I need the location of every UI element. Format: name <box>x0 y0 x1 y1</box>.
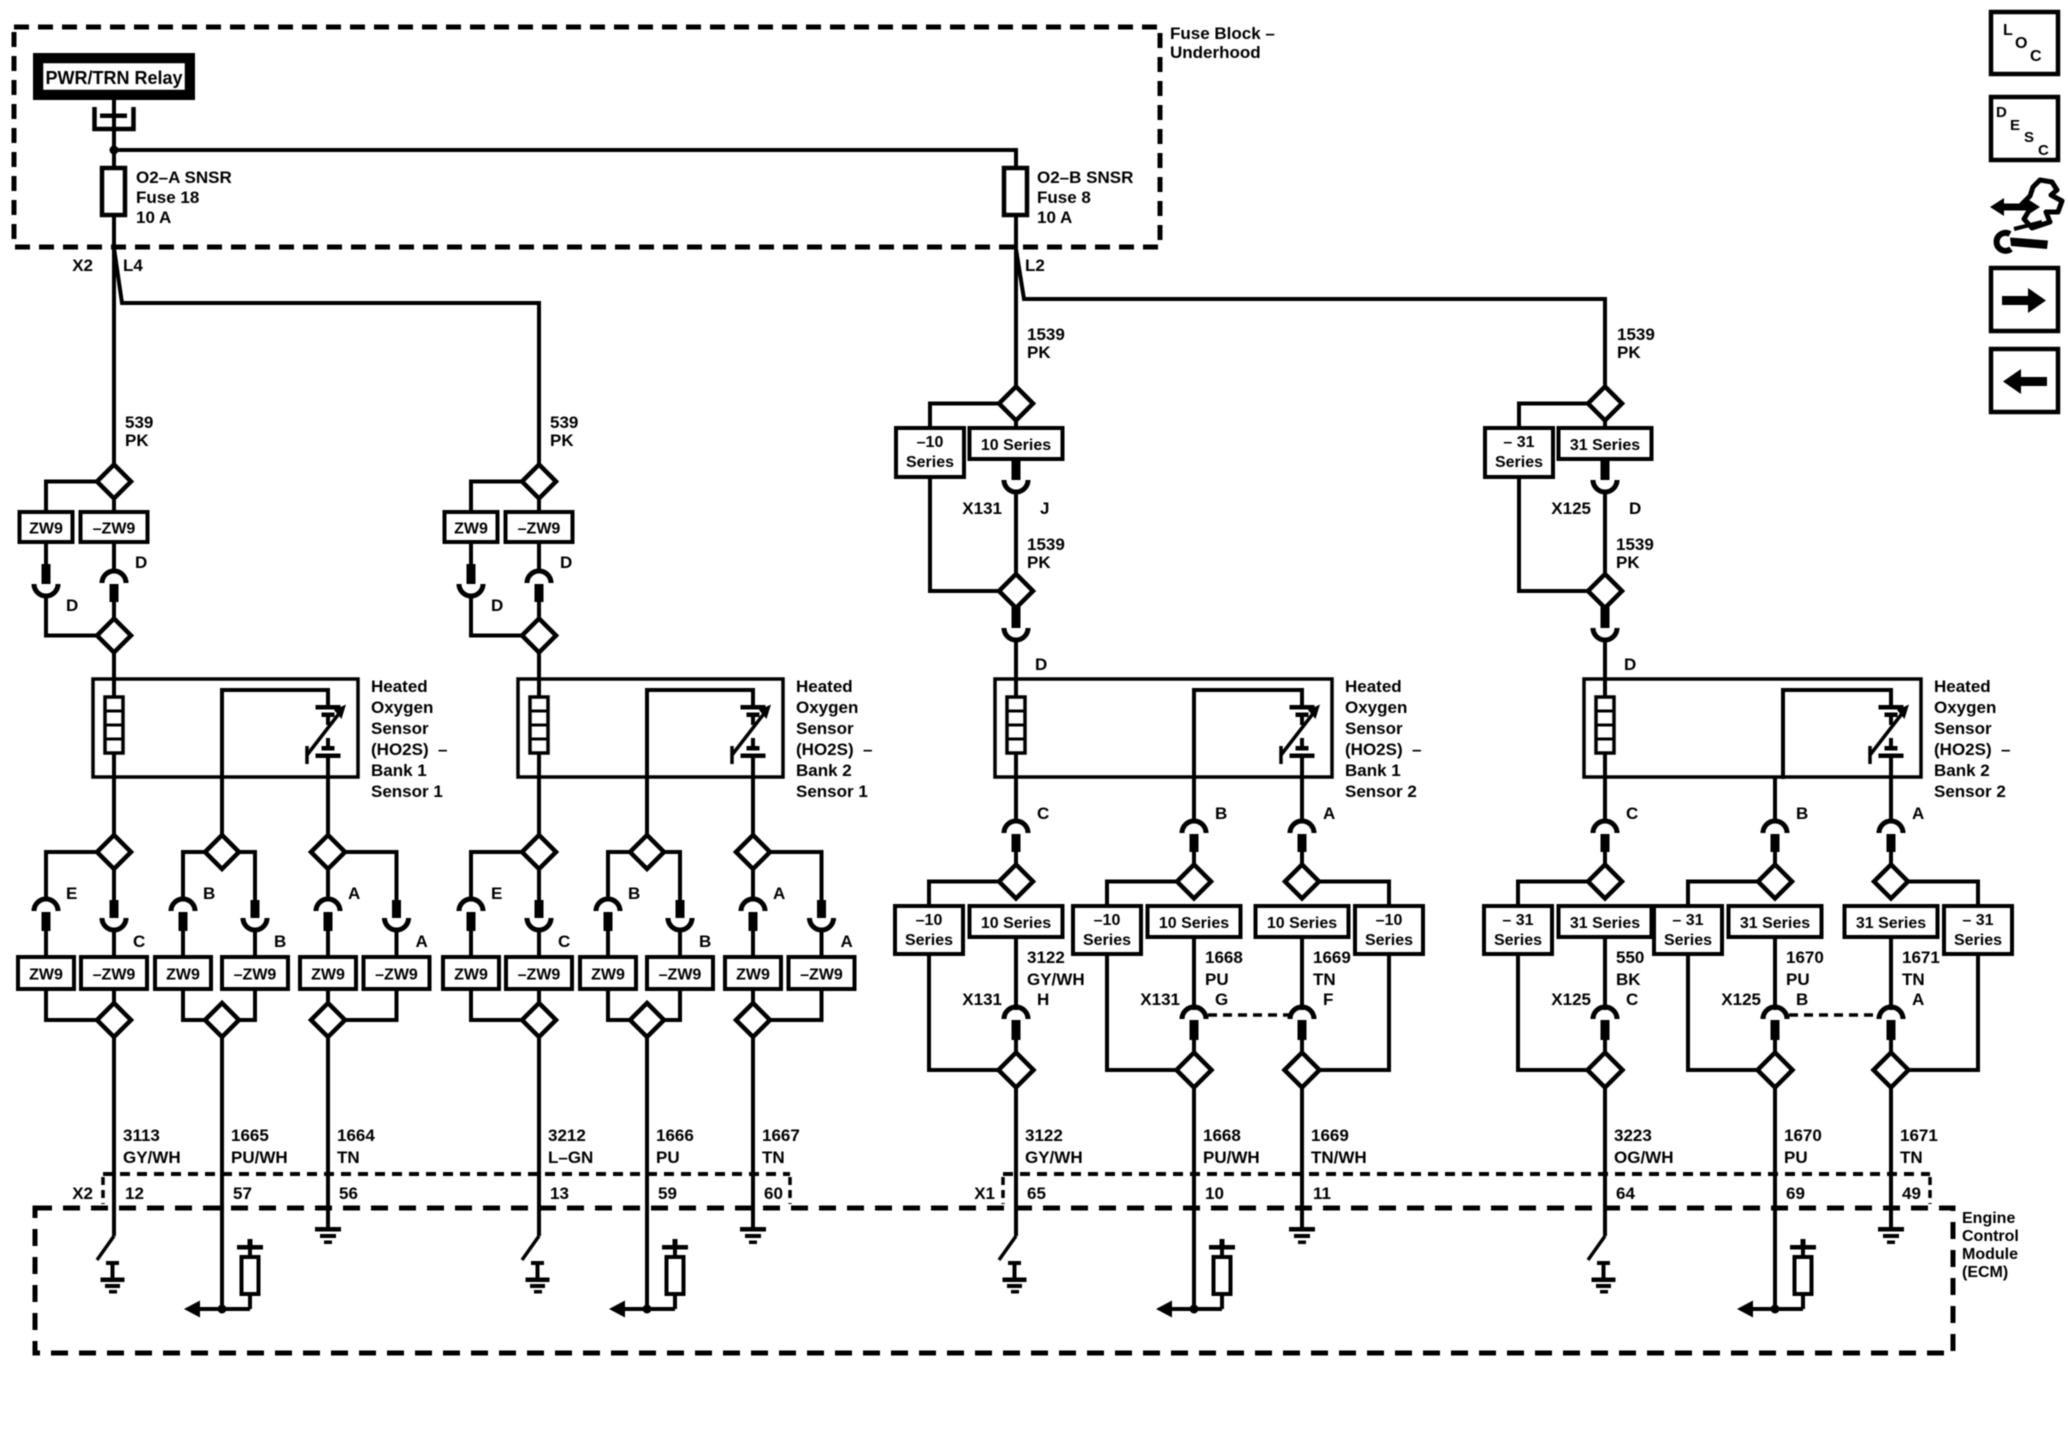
svg-text:D: D <box>491 596 503 615</box>
signal diverge diamond A B2S1c <box>736 777 770 869</box>
svg-text:10 Series: 10 Series <box>1267 915 1337 932</box>
svg-text:(ECM): (ECM) <box>1962 1264 2008 1281</box>
series merge diamond B1S2b <box>1177 1053 1212 1088</box>
svg-text:Heated: Heated <box>371 677 428 696</box>
ECM signal arrow pin69 <box>1737 1301 1803 1318</box>
wire to -ZW9 box B1S1 <box>112 929 116 958</box>
svg-text:Bank 1: Bank 1 <box>1345 761 1401 780</box>
svg-text:PU: PU <box>656 1148 680 1167</box>
svg-text:ZW9: ZW9 <box>454 521 488 538</box>
wire below series box B1S2c <box>1300 937 1304 1010</box>
ZW9 option box low B2S1c <box>725 957 781 989</box>
inline connector pin right B1S1 <box>110 900 119 918</box>
svg-text:ZW9: ZW9 <box>454 967 488 984</box>
engine control module dashed box <box>35 1208 1953 1353</box>
svg-text:Sensor 2: Sensor 2 <box>1934 782 2006 801</box>
branch wire right B1S1 <box>112 868 116 902</box>
connector pin X131 B1S2 <box>1012 459 1021 480</box>
signal merge diamond B1S1b <box>205 1003 239 1037</box>
label X2 at fuse block exit <box>72 256 93 275</box>
wire label 3122 GY/WH <box>1025 1126 1083 1167</box>
pin 10 <box>1205 1184 1224 1203</box>
label X125 top B2S2 <box>1551 499 1591 518</box>
ZW9 option box low B2S1b <box>580 957 636 989</box>
wire right to merge B1S1 <box>112 600 116 620</box>
sensor variable arrow B1S1 <box>307 705 346 765</box>
svg-text:PK: PK <box>550 431 574 450</box>
svg-text:B: B <box>1215 804 1227 823</box>
connector pin D B2S2 <box>1601 607 1610 628</box>
stub to series box B1S2 <box>1014 419 1018 429</box>
stub to series box B2S2 <box>1603 419 1607 429</box>
svg-text:69: 69 <box>1786 1184 1805 1203</box>
svg-text:X125: X125 <box>1551 499 1591 518</box>
svg-text:OG/WH: OG/WH <box>1614 1148 1674 1167</box>
wire to -ZW9 box B2S1b <box>678 929 682 958</box>
10 Series option box low B1S2c <box>1256 906 1349 937</box>
svg-text:L4: L4 <box>123 256 143 275</box>
wire label 1539 PK col4 <box>1617 325 1655 362</box>
pin 11 <box>1313 1184 1331 1203</box>
inline connector socket C B1S1 <box>102 918 145 951</box>
wire fuse18 down <box>112 215 116 248</box>
svg-text:X2: X2 <box>72 1184 93 1203</box>
svg-text:Sensor 2: Sensor 2 <box>1345 782 1417 801</box>
-ZW9 option box low B2S1c <box>789 957 855 989</box>
sensor element cell B2S2 <box>1879 705 1904 779</box>
pin 57 <box>233 1184 252 1203</box>
svg-text:TN/WH: TN/WH <box>1311 1148 1367 1167</box>
svg-text:10 Series: 10 Series <box>981 437 1051 454</box>
svg-text:–ZW9: –ZW9 <box>234 967 277 984</box>
svg-text:B: B <box>699 932 711 951</box>
ECM sense wire pin10 <box>1192 1208 1196 1309</box>
inline connector pin left B2S1 <box>467 564 476 584</box>
ECM pull-up resistor pin57 <box>237 1239 263 1309</box>
ECM label <box>1962 1210 2019 1281</box>
pin 60 <box>764 1184 783 1203</box>
svg-text:– 31: – 31 <box>1672 912 1703 929</box>
ECM driver switch pin12 <box>97 1208 114 1260</box>
wire to diverge B2S2b <box>1773 850 1777 865</box>
connector pin C B2S2 <box>1601 834 1610 852</box>
connector pin low B1S2b <box>1190 1020 1199 1040</box>
fuse block - underhood dashed enclosure <box>14 27 1160 247</box>
signal merge diamond B1S1 <box>97 1003 131 1037</box>
pin 64 <box>1616 1184 1635 1203</box>
wire label 539 PK col1 <box>125 413 153 450</box>
svg-text:O: O <box>2015 35 2027 52</box>
sensor cell internal wire B2S1 <box>647 690 753 779</box>
svg-text:31 Series: 31 Series <box>1570 437 1640 454</box>
wire to -ZW9 box B1S1b <box>253 929 257 958</box>
svg-text:ZW9: ZW9 <box>736 967 770 984</box>
svg-text:A: A <box>1323 804 1335 823</box>
-31 Series option box low B2S2c <box>1944 906 2012 954</box>
ECM sense wire pin69 <box>1773 1208 1777 1309</box>
svg-text:1667: 1667 <box>762 1126 800 1145</box>
label terminal letter top B2S2 <box>1629 499 1641 518</box>
ECM pull-up resistor pin69 <box>1790 1239 1816 1309</box>
inline connector pin right B1S1c <box>392 900 401 918</box>
wire -ZW9 to merge B1S1c <box>345 989 397 1020</box>
ECM pull-up resistor pin10 <box>1209 1239 1235 1309</box>
svg-text:A: A <box>773 884 785 903</box>
connector pin D B1S2 <box>1012 607 1021 628</box>
signal merge diamond B2S1c <box>736 1003 770 1037</box>
sensor variable arrow B2S2 <box>1870 705 1909 765</box>
inline connector socket right D B2S1 <box>527 553 572 583</box>
svg-text:(HO2S) –: (HO2S) – <box>796 740 873 759</box>
svg-text:A: A <box>416 932 428 951</box>
inline connector pin left B1S1b <box>179 912 188 931</box>
svg-text:–10: –10 <box>917 434 944 451</box>
svg-text:E: E <box>491 884 502 903</box>
connector pin C B1S2 <box>1012 834 1021 852</box>
icon LOC box <box>1991 12 2058 74</box>
sensor output wire B2S2 <box>1603 777 1607 822</box>
ECM driver switch pin64 <box>1588 1208 1605 1260</box>
wire below -ZW9 B2S1 <box>537 542 541 572</box>
wire label 1670 PU <box>1784 1126 1822 1167</box>
feed merge diamond B1S2 <box>999 574 1033 608</box>
label L4 <box>123 256 143 275</box>
inline connector pin right B1S1 <box>110 584 119 602</box>
svg-text:Sensor: Sensor <box>1934 719 1992 738</box>
branch to -31 series B2S2 <box>1518 882 1588 907</box>
fuse 18 label <box>136 168 232 227</box>
branch wire right B1S1b <box>239 852 255 902</box>
wire to ZW9 box B2S1c <box>751 929 755 958</box>
sensor element cell B1S1 <box>316 705 341 779</box>
svg-text:Heated: Heated <box>1345 677 1402 696</box>
svg-text:X2: X2 <box>72 256 93 275</box>
ZW9 option box low B2S1 <box>443 957 499 989</box>
svg-text:11: 11 <box>1313 1184 1331 1203</box>
wire below series box B1S2b <box>1192 937 1196 1010</box>
svg-text:ZW9: ZW9 <box>29 967 63 984</box>
svg-text:F: F <box>1323 990 1333 1009</box>
svg-text:Series: Series <box>906 454 954 471</box>
wire to ECM pin B2S2 <box>1603 1088 1607 1211</box>
signal diverge diamond B B2S1b <box>630 777 664 869</box>
wire label 1671 TN <box>1900 1126 1938 1167</box>
svg-text:1666: 1666 <box>656 1126 694 1145</box>
-10 Series option box low B1S2 <box>895 906 963 954</box>
svg-text:X1: X1 <box>974 1184 995 1203</box>
-ZW9 option box low B2S1b <box>647 957 713 989</box>
fuse block label <box>1170 24 1275 62</box>
-ZW9 option box B1S1 <box>81 512 148 542</box>
svg-text:–ZW9: –ZW9 <box>518 521 561 538</box>
-ZW9 option box low B2S1 <box>506 957 572 989</box>
branch wire left B2S1 <box>471 852 522 901</box>
svg-text:– 31: – 31 <box>1502 912 1533 929</box>
wire to -ZW9 box B2S1c <box>820 929 824 958</box>
svg-text:10 A: 10 A <box>136 208 171 227</box>
svg-text:TN: TN <box>1313 970 1336 989</box>
10 Series option box low B1S2 <box>970 906 1063 937</box>
wire bus to O2-B fuse <box>114 150 1016 168</box>
twisted pair dashed link B-A <box>1789 1013 1878 1017</box>
wire to merge low B2S2c <box>1889 1040 1893 1053</box>
wire X125 to merge B2S2 <box>1603 491 1607 575</box>
inline connector socket A B1S1c <box>316 884 360 911</box>
svg-text:TN: TN <box>762 1148 785 1167</box>
svg-text:–ZW9: –ZW9 <box>518 967 561 984</box>
connector pin low B2S2c <box>1887 1020 1896 1040</box>
mid wire label B2S2b <box>1786 948 1824 989</box>
inline connector socket E B1S1 <box>34 884 77 911</box>
label terminal letter top B1S2 <box>1040 499 1049 518</box>
svg-text:TN: TN <box>337 1148 360 1167</box>
svg-text:Sensor 1: Sensor 1 <box>371 782 443 801</box>
ECM signal arrow pin10 <box>1156 1301 1222 1318</box>
31 Series option box B2S2 <box>1559 428 1652 459</box>
svg-text:65: 65 <box>1027 1184 1046 1203</box>
icon harness outline <box>2022 180 2062 228</box>
svg-text:E: E <box>66 884 77 903</box>
svg-text:GY/WH: GY/WH <box>1025 1148 1083 1167</box>
sensor label B2S1 <box>796 677 873 801</box>
svg-text:– 31: – 31 <box>1962 912 1993 929</box>
wire left to merge B2S1 <box>471 595 522 636</box>
wire below -ZW9 B1S1 <box>112 542 116 572</box>
series diverge diamond B2S2c <box>1874 865 1908 899</box>
wire label 1666 PU <box>656 1126 694 1167</box>
fuse 8 label <box>1037 168 1133 227</box>
sensor element cell B1S2 <box>1290 705 1315 779</box>
heater element B1S2 <box>1007 679 1025 779</box>
inline connector socket A B2S1c <box>810 918 853 951</box>
pin 69 <box>1786 1184 1805 1203</box>
-ZW9 option box low B1S1 <box>81 957 147 989</box>
sensor output wire B2S2b <box>1773 777 1777 822</box>
svg-text:Sensor 1: Sensor 1 <box>796 782 868 801</box>
svg-text:D: D <box>1996 104 2007 121</box>
branch to -31 series B2S2c <box>1908 882 1978 907</box>
svg-text:PK: PK <box>125 431 149 450</box>
-10 series return wire B1S2 <box>929 954 999 1070</box>
ZW9 option box B2S1 <box>445 512 498 542</box>
svg-text:10: 10 <box>1205 1184 1224 1203</box>
connector pin low B1S2 <box>1012 1020 1021 1040</box>
feed merge diamond B2S2 <box>1588 574 1622 608</box>
wire ZW9 to merge B2S1 <box>471 989 522 1020</box>
connector socket low B1S2b <box>1182 990 1228 1019</box>
wire left to merge B1S1 <box>46 595 97 636</box>
svg-text:ZW9: ZW9 <box>166 967 200 984</box>
svg-text:D: D <box>560 553 572 572</box>
inline connector socket A B2S1c <box>741 884 785 911</box>
signal diverge diamond E B2S1 <box>522 777 556 869</box>
svg-text:J: J <box>1040 499 1049 518</box>
branch wire left B2S1b <box>608 852 630 901</box>
wire label 1665 PU/WH <box>231 1126 288 1167</box>
svg-text:H: H <box>1037 990 1049 1009</box>
svg-text:ZW9: ZW9 <box>591 967 625 984</box>
svg-text:B: B <box>628 884 640 903</box>
connector socket B B2S2b <box>1763 804 1808 833</box>
inline connector pin right B2S1 <box>535 584 544 602</box>
svg-text:Underhood: Underhood <box>1170 43 1261 62</box>
connector socket low B2S2 <box>1593 990 1638 1019</box>
wire label 1539 PK mid B1S2 <box>1027 535 1065 572</box>
31 Series option box low B2S2b <box>1729 906 1822 937</box>
svg-text:C: C <box>558 932 570 951</box>
svg-text:PU/WH: PU/WH <box>1203 1148 1260 1167</box>
inline connector pin right B2S1c <box>817 900 826 918</box>
wire to ZW9 box B1S1b <box>181 929 185 958</box>
junction node at relay output <box>110 146 119 155</box>
svg-text:D: D <box>1629 499 1641 518</box>
inline connector pin left B1S1 <box>42 564 51 584</box>
connector socket low B2S2b <box>1763 990 1808 1019</box>
ZW9 option box low B1S1c <box>300 957 356 989</box>
wire -ZW9 to merge B2S1 <box>537 989 541 1004</box>
svg-text:1539: 1539 <box>1617 325 1655 344</box>
svg-text:PU: PU <box>1784 1148 1808 1167</box>
ZW9 option box low B1S1b <box>155 957 211 989</box>
ECM ground pin11 <box>1289 1208 1315 1244</box>
label X2 connector <box>72 1184 93 1203</box>
svg-text:GY/WH: GY/WH <box>123 1148 181 1167</box>
svg-text:(HO2S) –: (HO2S) – <box>371 740 448 759</box>
X1 connector dashed line <box>1003 1174 1930 1204</box>
connector pin B B1S2b <box>1190 834 1199 852</box>
label X131 low B1S2 <box>962 990 1002 1009</box>
wire label 1669 TN/WH <box>1311 1126 1367 1167</box>
wire below series box B2S2 <box>1603 937 1607 1010</box>
svg-text:(HO2S) –: (HO2S) – <box>1934 740 2011 759</box>
svg-text:10 Series: 10 Series <box>1159 915 1229 932</box>
-10 series return wire B1S2b <box>1107 954 1177 1070</box>
ECM switch ground pin12 <box>101 1261 125 1294</box>
connector socket B B1S2b <box>1182 804 1227 833</box>
svg-text:Bank 2: Bank 2 <box>796 761 852 780</box>
wire label 539 PK col2 <box>550 413 578 450</box>
svg-text:B: B <box>203 884 215 903</box>
connector socket X131 J B1S2 <box>1004 480 1028 492</box>
pin 65 <box>1027 1184 1046 1203</box>
svg-text:Fuse 8: Fuse 8 <box>1037 188 1091 207</box>
wire to ECM pin B2S2c <box>1889 1088 1893 1211</box>
svg-text:C: C <box>1037 804 1049 823</box>
svg-text:31 Series: 31 Series <box>1570 915 1640 932</box>
connector pin low B2S2b <box>1771 1020 1780 1040</box>
svg-text:PK: PK <box>1027 553 1051 572</box>
wire merge to HO2S B1S1 <box>112 652 116 681</box>
svg-text:–10: –10 <box>916 912 943 929</box>
svg-text:1671: 1671 <box>1900 1126 1938 1145</box>
svg-text:Oxygen: Oxygen <box>1345 698 1407 717</box>
svg-text:PU: PU <box>1786 970 1810 989</box>
svg-text:550: 550 <box>1616 948 1644 967</box>
ECM ground pin56 <box>315 1208 341 1244</box>
pin 12 <box>125 1184 144 1203</box>
-ZW9 option box low B1S1c <box>364 957 430 989</box>
svg-text:PK: PK <box>1617 343 1641 362</box>
ECM junction dot pin59 <box>643 1305 652 1314</box>
heater element B2S2 <box>1596 679 1614 779</box>
wire -31 series return B2S2 <box>1519 477 1588 591</box>
svg-text:Control: Control <box>1962 1228 2019 1245</box>
wire label 1539 PK col3 <box>1027 325 1065 362</box>
svg-text:3212: 3212 <box>548 1126 586 1145</box>
svg-text:31 Series: 31 Series <box>1856 915 1926 932</box>
connector pin A B1S2c <box>1298 834 1307 852</box>
wire to ZW9 B2S1 <box>471 482 522 513</box>
wire -10 series return B1S2 <box>930 477 999 591</box>
svg-text:B: B <box>1796 804 1808 823</box>
svg-text:Fuse 18: Fuse 18 <box>136 188 199 207</box>
signal merge diamond B1S1c <box>311 1003 345 1037</box>
mid wire label B1S2 <box>1027 948 1085 989</box>
wire to -ZW9 box B1S1c <box>395 929 399 958</box>
wire to ECM pin B1S2b <box>1192 1088 1196 1211</box>
wire below series box B1S2 <box>1014 937 1018 1010</box>
branch wire right B2S1b <box>664 852 680 902</box>
branch to -10 series B1S2c <box>1319 882 1389 907</box>
inline connector socket left D B1S1 <box>34 584 78 615</box>
wire to diverge B2S2 <box>1603 850 1607 865</box>
-ZW9 option box B2S1 <box>506 512 573 542</box>
ECM signal arrow pin59 <box>609 1301 675 1318</box>
inline connector socket C B2S1 <box>527 918 570 951</box>
wire to diverge B2S2c <box>1889 850 1893 865</box>
ECM driver switch pin65 <box>999 1208 1016 1260</box>
wire to ZW9 box B1S1c <box>326 929 330 958</box>
svg-text:1670: 1670 <box>1786 948 1824 967</box>
-10 Series option box B1S2 <box>896 428 964 477</box>
ZW9 option box B1S1 <box>20 512 73 542</box>
svg-text:3113: 3113 <box>123 1126 160 1145</box>
label X131 top B1S2 <box>962 499 1002 518</box>
branch wire right B2S1c <box>770 852 822 902</box>
label X1 connector <box>974 1184 995 1203</box>
wire to ECM B2S1 <box>537 1037 541 1211</box>
svg-text:Bank 2: Bank 2 <box>1934 761 1990 780</box>
sensor cell internal wire B2S2 <box>1783 690 1891 779</box>
svg-text:57: 57 <box>233 1184 252 1203</box>
svg-text:1668: 1668 <box>1203 1126 1241 1145</box>
wire D to HO2S B1S2 <box>1014 639 1018 681</box>
wire to ECM pin B2S2b <box>1773 1088 1777 1211</box>
connector pin B B2S2b <box>1771 834 1780 852</box>
wire to ECM pin B1S2 <box>1014 1088 1018 1211</box>
ZW9 option box low B1S1 <box>18 957 74 989</box>
svg-text:539: 539 <box>125 413 153 432</box>
svg-text:31 Series: 31 Series <box>1740 915 1810 932</box>
wire to ZW9 box B2S1b <box>606 929 610 958</box>
inline connector socket B B2S1b <box>596 884 640 911</box>
10 Series option box B1S2 <box>970 428 1063 459</box>
series diverge diamond B1S2 <box>999 865 1033 899</box>
inline connector pin left B2S1c <box>749 912 758 931</box>
wire to merge low B1S2b <box>1192 1040 1196 1053</box>
X2 connector dashed line <box>103 1174 790 1204</box>
wire X131 to merge B1S2 <box>1014 491 1018 575</box>
svg-text:1668: 1668 <box>1205 948 1243 967</box>
label L2 <box>1025 256 1045 275</box>
svg-text:D: D <box>1624 655 1636 674</box>
svg-text:O2–B SNSR: O2–B SNSR <box>1037 168 1133 187</box>
heated oxygen sensor box B2S2 <box>1584 679 1921 777</box>
svg-text:56: 56 <box>339 1184 358 1203</box>
wire to merge low B2S2b <box>1773 1040 1777 1053</box>
svg-text:Series: Series <box>1954 932 2002 949</box>
fuse O2-A SNSR Fuse 18 <box>102 168 125 215</box>
